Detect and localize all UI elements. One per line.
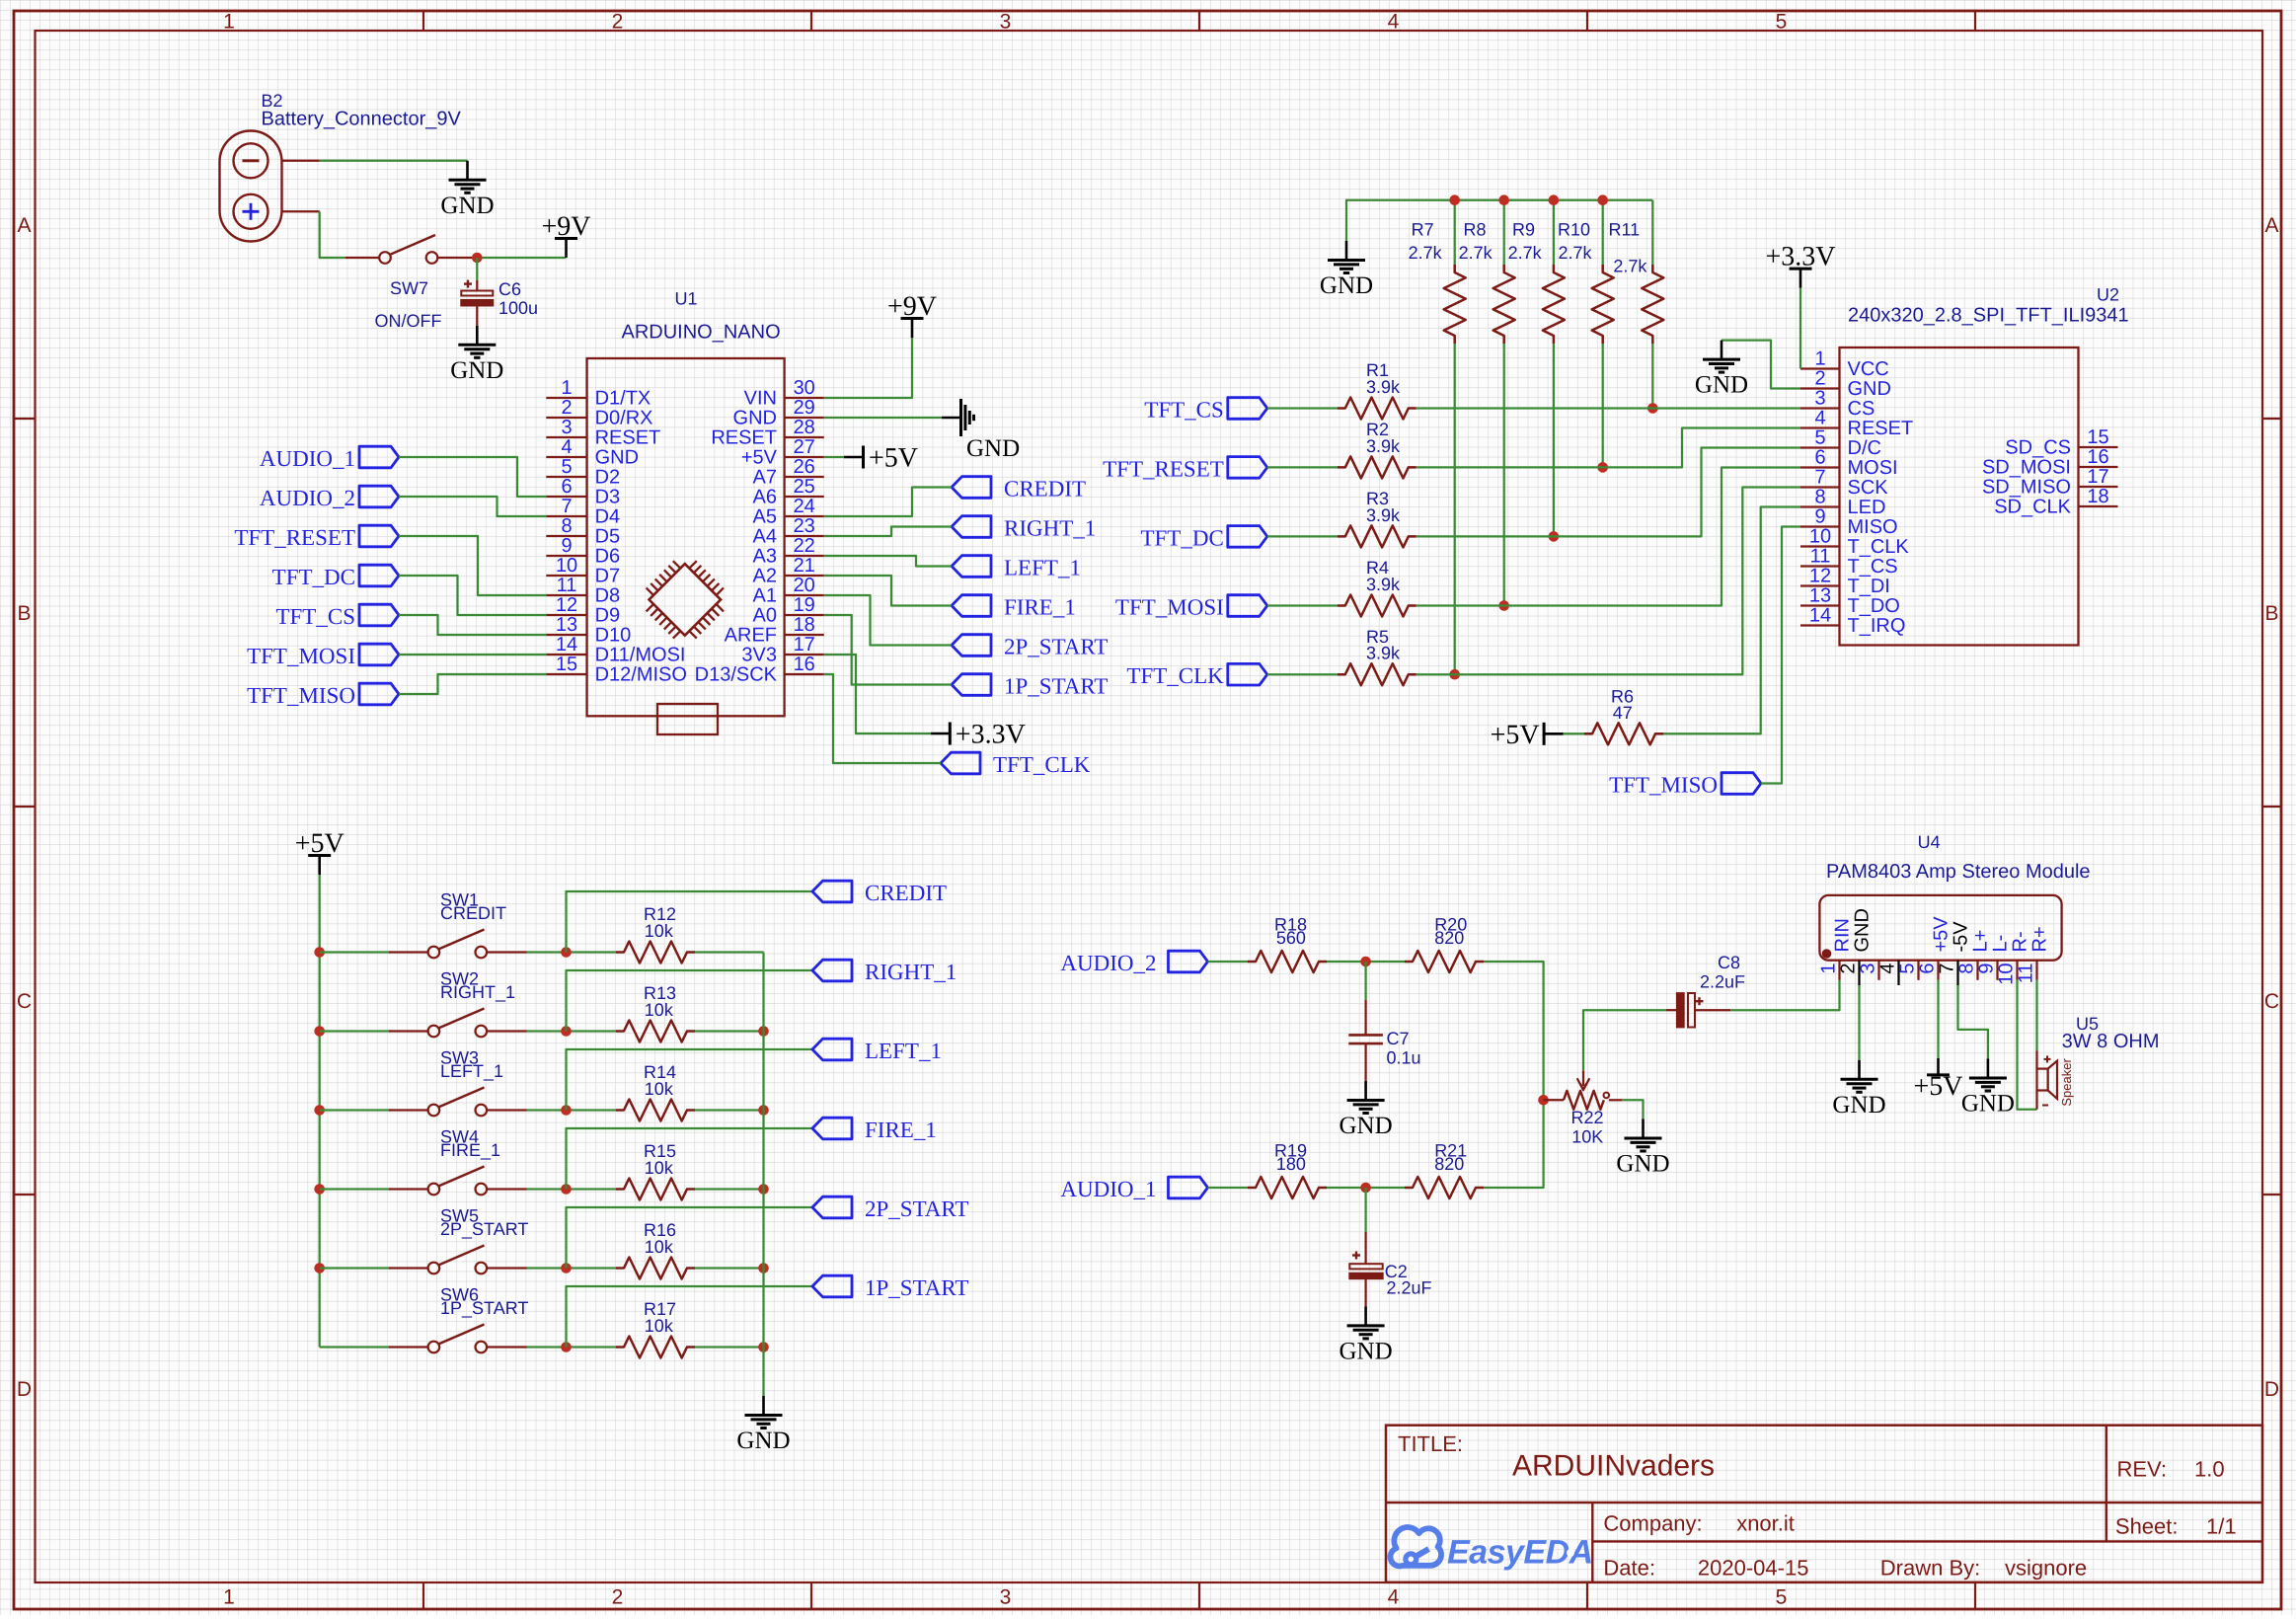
switch SW3 LEFT_1 [320,1048,527,1117]
svg-text:100u: 100u [498,298,538,318]
U1 pin 7 D4 [546,496,620,528]
resistor R21 820 [1405,1140,1484,1198]
svg-text:10k: 10k [645,1237,674,1257]
junction pull-up bus [1549,194,1560,205]
U4 pin 2 [1838,908,1874,985]
wire AUDIO_2 to R18 [1208,961,1249,963]
junction SW3 output [561,1105,572,1116]
wire AUDIO_2 to D4 [399,497,546,516]
U1 pin 10 D7 [546,555,620,587]
svg-text:2020-04-15: 2020-04-15 [1698,1556,1809,1581]
svg-text:11: 11 [1810,546,1831,568]
wire R6 to U2 LED pin8 [1663,507,1800,734]
svg-text:TITLE:: TITLE: [1398,1431,1463,1456]
wire battery plus to switch SW7 [320,211,345,258]
wire R19 to node [1327,1187,1405,1189]
svg-text:2: 2 [612,1586,624,1609]
resistor R3 3.9k [1338,489,1416,547]
net port TFT_CS (U2 side) [1144,398,1267,423]
power flag +9V at SW7 [541,211,590,258]
svg-text:ARDUINvaders: ARDUINvaders [1512,1450,1715,1483]
frame column ticks bottom [423,1582,1975,1609]
svg-text:GND: GND [1339,1338,1393,1364]
wire R13 to gnd bus [695,1030,764,1032]
wire pull-up bus to GND [1346,200,1652,241]
ground flag battery minus [440,161,494,219]
svg-text:+5V: +5V [295,828,344,859]
wire 3V3 to +3.3V [824,655,931,733]
svg-text:A2: A2 [753,566,777,587]
svg-text:R11: R11 [1609,219,1641,239]
svg-text:R9: R9 [1512,219,1535,239]
junction gnd bus row SW3 [758,1105,769,1116]
wire C8 to U4 RIN [1730,980,1839,1010]
svg-text:Sheet:: Sheet: [2115,1513,2179,1538]
capacitor C8 2.2uF [1666,953,1745,1028]
U2 pin 18 SD_CLK [1994,486,2117,518]
svg-text:D: D [2264,1378,2279,1401]
svg-text:vsignore: vsignore [2005,1556,2087,1581]
svg-text:7: 7 [1937,964,1958,974]
junction +5V bus SW3 [314,1105,325,1116]
U4 pin 4 [1877,961,1899,985]
svg-text:1P_START: 1P_START [1004,674,1108,699]
svg-text:T_CLK: T_CLK [1848,536,1910,558]
svg-text:GND: GND [1320,272,1373,299]
U1 pin 6 D3 [546,476,620,508]
net port AUDIO_1 (U1 side) [260,446,399,471]
svg-text:RIGHT_1: RIGHT_1 [1004,516,1096,541]
wire A2 to FIRE_1 [824,576,952,606]
svg-text:FIRE_1: FIRE_1 [1004,595,1076,620]
svg-text:+5V: +5V [1491,720,1540,750]
power flag +5V at U4 [1913,1058,1962,1102]
wire TFT_RESET to D8 [399,536,546,595]
wire U4 R- pin10 to speaker [2018,980,2037,1110]
net port 1P_START (U1 side) [952,674,1108,699]
power flag +9V at U1 VIN [887,291,937,338]
resistor R17 10k [616,1299,695,1357]
svg-text:+3.3V: +3.3V [956,720,1026,750]
U2 pin 9 MISO [1800,506,1898,539]
U4 pin 1 [1818,918,1854,980]
U2 pin 5 D/C [1800,427,1881,460]
net port TFT_DC (U2 side) [1140,525,1266,550]
svg-text:D5: D5 [595,526,621,548]
frame column ticks top [423,11,1975,31]
wire SW3 to port LEFT_1 [567,1049,813,1111]
svg-text:T_CS: T_CS [1848,556,1898,578]
junction R8 row [1498,600,1509,611]
svg-text:C7: C7 [1387,1029,1410,1048]
U1 USB connector tab [657,704,718,734]
svg-text:3.9k: 3.9k [1366,644,1401,663]
svg-text:820: 820 [1434,928,1464,948]
wire TFT_MISO to D12 [399,674,546,694]
wire R16 to gnd bus [695,1267,764,1269]
svg-text:12: 12 [556,594,577,616]
svg-text:RIN: RIN [1832,918,1854,952]
svg-text:D4: D4 [595,506,621,528]
wire +3.3V to U2 VCC [1799,288,1801,369]
U4 pin 7 [1937,921,1972,985]
resistor R5 3.9k [1338,627,1416,685]
svg-text:-5V: -5V [1951,921,1972,953]
junction gnd bus row SW6 [758,1342,769,1352]
U1 pin 8 D5 [546,515,620,548]
svg-text:T_DO: T_DO [1848,595,1900,617]
net port 1P_START (switch side) [812,1275,968,1300]
svg-text:4: 4 [1388,11,1400,34]
wire SW2 to port RIGHT_1 [567,970,813,1032]
wire TFT_CLK to R5 [1267,673,1338,675]
svg-text:26: 26 [794,456,815,478]
junction gnd bus row SW4 [758,1184,769,1195]
svg-text:28: 28 [794,417,815,438]
wire SW2 to node [527,1030,617,1032]
junction AUDIO_2 node [1360,957,1371,967]
svg-text:D8: D8 [595,585,621,607]
junction node +9V/C6 [472,253,483,264]
svg-text:GND: GND [733,408,777,429]
svg-text:6: 6 [1814,447,1825,469]
U1 pin 27 +5V [741,436,824,469]
svg-text:+9V: +9V [541,211,590,242]
IC U1 ARDUINO_NANO body [587,289,785,717]
ground flag pull-up bus [1320,241,1373,299]
svg-text:6: 6 [1917,964,1939,974]
U4 pin 8 [1956,930,1992,980]
svg-text:A: A [2264,214,2278,237]
svg-text:9: 9 [1976,964,1998,974]
svg-text:C: C [17,990,32,1013]
svg-text:1: 1 [223,11,235,34]
wire R9 to signal row [1553,344,1555,536]
svg-text:SCK: SCK [1848,477,1889,499]
svg-text:25: 25 [794,476,815,498]
U1 pin 2 D0/RX [546,397,652,429]
power flag +5V at R6 [1491,720,1564,750]
ground flag U1 pin29 [942,399,1020,462]
power flag +3.3V at U1 3V3 [931,720,1026,750]
U1 pin 15 D12/MISO [546,654,687,686]
svg-text:R7: R7 [1412,219,1434,239]
svg-text:3.9k: 3.9k [1366,377,1401,397]
wire wiper to C8 [1583,1010,1666,1070]
wire bus to R8 [1503,200,1505,265]
svg-text:21: 21 [794,555,815,577]
svg-text:AUDIO_2: AUDIO_2 [260,486,355,510]
svg-text:D6: D6 [595,546,621,568]
U2 pin 14 T_IRQ [1800,605,1905,638]
IC U2 240x320_2.8_SPI_TFT_ILI9341 body [1840,285,2129,646]
net port TFT_MOSI (U2 side) [1115,595,1267,620]
IC U4 PAM8403 body [1819,832,2090,961]
wire bus to R7 [1454,200,1456,265]
svg-text:D11/MOSI: D11/MOSI [595,645,686,666]
resistor R10 2.7k [1558,219,1614,344]
resistor R1 3.9k [1338,360,1416,419]
svg-text:TFT_CLK: TFT_CLK [1126,663,1224,688]
frame column numbers top [223,11,1787,34]
wire R21 to mix node [1484,1100,1544,1188]
resistor R6 47 [1584,687,1663,745]
ground flag U4 pin7 [1961,1059,2015,1118]
frame row letters left [17,214,32,1401]
junction SW2 output [561,1026,572,1037]
svg-text:SW7: SW7 [390,278,428,298]
U4 pin 5 [1897,961,1919,980]
U1 pin 23 A4 [753,515,824,548]
svg-text:1P_START: 1P_START [865,1275,968,1300]
resistor R11 2.7k [1609,219,1664,344]
svg-text:+5V: +5V [1931,916,1952,953]
svg-text:GND: GND [1339,1113,1393,1139]
svg-text:R22: R22 [1571,1108,1604,1127]
U4 pin 9 [1976,935,2012,980]
svg-text:7: 7 [561,496,572,517]
svg-text:TFT_RESET: TFT_RESET [234,525,355,550]
svg-text:CREDIT: CREDIT [1004,477,1086,501]
svg-text:10k: 10k [645,1000,674,1020]
svg-text:U2: U2 [2097,285,2119,305]
svg-text:6: 6 [561,476,572,498]
svg-text:13: 13 [1809,585,1831,607]
net port TFT_CLK (U1 side) [941,752,1091,777]
frame row letters right [2264,214,2279,1401]
wire VIN pin30 to +9V [824,338,912,398]
svg-text:11: 11 [557,575,577,596]
svg-text:1: 1 [223,1586,235,1609]
svg-text:29: 29 [794,397,815,419]
U1 pin 1 D1/TX [546,377,651,410]
junction SW6 output [561,1342,572,1352]
resistor R16 10k [616,1220,695,1278]
wire CS row to U2 pin3 [1416,407,1800,409]
wire A4 to RIGHT_1 [824,527,952,537]
svg-text:5: 5 [561,456,572,478]
svg-text:2P_START: 2P_START [865,1196,968,1221]
svg-text:3.9k: 3.9k [1366,436,1401,456]
svg-text:AUDIO_2: AUDIO_2 [1060,951,1156,975]
U1 pin 13 D10 [546,614,631,647]
U4 pin 10 [1996,931,2031,984]
svg-text:R+: R+ [2029,926,2051,952]
svg-text:D10: D10 [595,625,632,647]
resistor R12 10k [616,904,695,963]
frame row ticks left [14,419,36,1195]
U2 pin 3 CS [1800,388,1875,421]
wire R15 to gnd bus [695,1188,764,1190]
svg-text:GND: GND [595,447,639,469]
net port 2P_START (U1 side) [952,635,1108,659]
wire R11 to signal row [1651,344,1653,409]
svg-text:17: 17 [2087,466,2108,488]
U1 pin 19 A0 [753,594,824,627]
U1 pin 24 A5 [753,496,824,528]
ground flag C2 [1339,1306,1393,1364]
wire +5V to R6 [1564,733,1584,734]
svg-text:VCC: VCC [1848,358,1889,380]
svg-text:2.7k: 2.7k [1459,243,1493,263]
svg-text:TFT_MISO: TFT_MISO [1609,773,1718,798]
svg-text:13: 13 [556,614,577,636]
svg-text:T_IRQ: T_IRQ [1848,615,1906,637]
power flag +5V at switch bank [295,828,344,875]
power flag +5V at U1 pin27 [844,443,918,474]
net port AUDIO_1 (mixer) [1060,1177,1207,1201]
net port AUDIO_2 (U1 side) [260,486,399,510]
svg-text:A7: A7 [753,467,777,489]
net port 2P_START (switch side) [812,1196,968,1221]
svg-text:D7: D7 [595,566,621,587]
battery connector B2 [220,91,462,242]
net port TFT_MOSI (U1 side) [247,644,399,668]
svg-text:22: 22 [794,535,815,557]
svg-text:MOSI: MOSI [1848,457,1898,479]
svg-text:3: 3 [1814,388,1825,410]
wire A1 to 2P_START [824,595,952,646]
wire R18 to node [1327,961,1405,963]
svg-text:FIRE_1: FIRE_1 [865,1118,937,1142]
U2 pin 10 T_CLK [1800,526,1909,559]
svg-text:ON/OFF: ON/OFF [375,311,442,331]
svg-text:30: 30 [794,377,815,399]
svg-text:D9: D9 [595,605,621,627]
svg-text:LEFT_1: LEFT_1 [865,1039,942,1063]
svg-text:AREF: AREF [725,625,777,647]
junction SW4 output [561,1184,572,1195]
svg-text:RESET: RESET [711,427,777,449]
svg-text:23: 23 [794,515,815,537]
net port TFT_RESET (U2 side) [1103,456,1267,481]
svg-text:8: 8 [561,515,572,537]
svg-text:SD_MOSI: SD_MOSI [1982,457,2071,479]
svg-text:7: 7 [1814,467,1825,489]
wire D/C row to U2 pin5 [1416,448,1800,537]
U4 pin 3 [1858,961,1879,980]
wire TFT_CS to R1 [1267,407,1338,409]
svg-text:12: 12 [1809,566,1831,587]
U1 pin 11 D8 [546,575,620,607]
svg-text:D12/MISO: D12/MISO [595,664,687,686]
svg-text:MISO: MISO [1848,516,1898,538]
svg-text:2: 2 [561,397,572,419]
svg-text:A4: A4 [753,526,777,548]
svg-text:GND: GND [450,357,503,384]
svg-text:AUDIO_1: AUDIO_1 [1060,1177,1156,1201]
junction +5V bus SW5 [314,1263,325,1273]
wire SW6 to port 1P_START [567,1286,813,1348]
resistor R19 180 [1248,1140,1327,1198]
svg-text:RIGHT_1: RIGHT_1 [865,960,957,984]
svg-text:B: B [17,602,31,625]
svg-text:0.1u: 0.1u [1387,1048,1421,1068]
svg-text:16: 16 [2087,446,2108,468]
svg-text:11: 11 [2016,964,2037,984]
svg-text:15: 15 [2087,426,2108,448]
svg-text:C: C [2264,990,2279,1013]
U1 pin 21 A2 [753,555,824,587]
svg-text:CREDIT: CREDIT [440,903,506,923]
wire R14 to gnd bus [695,1109,764,1111]
svg-text:+9V: +9V [887,291,937,322]
ground flag switch bank [736,1396,790,1454]
ground flag C6 [450,326,503,384]
svg-text:1.0: 1.0 [2194,1456,2225,1481]
switch SW6 1P_START [320,1285,529,1353]
svg-text:Company:: Company: [1603,1510,1702,1535]
svg-text:8: 8 [1956,964,1978,974]
svg-text:GND: GND [1695,372,1748,399]
svg-text:D1/TX: D1/TX [595,388,651,410]
net port TFT_CLK (U2 side) [1126,663,1266,688]
wire GND pin29 [824,417,942,419]
wire U4 -5V pin7 to GND [1958,985,1988,1059]
wire SW5 to node [527,1267,617,1269]
wire bus to R9 [1553,200,1555,265]
U1 pin 20 A1 [753,575,824,607]
wire SW4 to port FIRE_1 [567,1128,813,1190]
svg-text:1/1: 1/1 [2206,1513,2237,1538]
resistor R7 2.7k [1409,219,1466,344]
svg-text:2.2uF: 2.2uF [1700,972,1745,992]
svg-text:9: 9 [561,535,572,557]
power flag +3.3V at U2 [1765,242,1835,288]
junction gnd bus row SW5 [758,1263,769,1273]
svg-text:L-: L- [1990,935,2012,953]
wire SW6 to node [527,1346,617,1348]
svg-text:TFT_RESET: TFT_RESET [1103,456,1224,481]
junction R11 row [1647,403,1658,414]
wire R17 to gnd bus [695,1346,764,1348]
svg-text:U4: U4 [1918,832,1941,852]
U1 pin 22 A3 [753,535,824,568]
wire bus to R11 [1651,200,1653,265]
wire TFT_MISO to U2 MISO pin9 [1761,527,1800,784]
potentiometer R22 10K [1544,1070,1622,1146]
svg-text:GND: GND [1852,908,1874,952]
svg-text:24: 24 [794,496,815,517]
U2 pin 4 RESET [1800,408,1913,440]
wire SW1 to port CREDIT [567,891,813,953]
ground flag U4 pin2 [1832,1060,1885,1119]
svg-text:SD_MISO: SD_MISO [1982,477,2071,499]
junction SW1 output [561,947,572,958]
svg-text:18: 18 [794,614,815,636]
svg-text:A3: A3 [753,546,777,568]
capacitor C6 100u [461,258,538,326]
net port FIRE_1 (U1 side) [952,595,1076,620]
svg-text:R8: R8 [1464,219,1487,239]
switch SW1 CREDIT [320,890,527,959]
svg-text:A6: A6 [753,487,777,508]
svg-text:5: 5 [1776,1586,1788,1609]
svg-text:560: 560 [1276,928,1306,948]
speaker U5 3W 8 OHM [2037,1014,2160,1110]
net port TFT_DC (U1 side) [272,565,399,589]
svg-text:TFT_CS: TFT_CS [275,604,355,629]
wire switch gnd bus [762,953,764,1397]
svg-text:xnor.it: xnor.it [1736,1510,1795,1535]
svg-text:GND: GND [1848,378,1891,400]
U1 pin 25 A6 [753,476,824,508]
svg-text:C6: C6 [498,279,521,299]
svg-text:27: 27 [794,436,815,458]
wire battery minus to GND [320,160,468,162]
U1 pin 17 3V3 [741,634,823,666]
U1 pin 28 RESET [711,417,823,449]
